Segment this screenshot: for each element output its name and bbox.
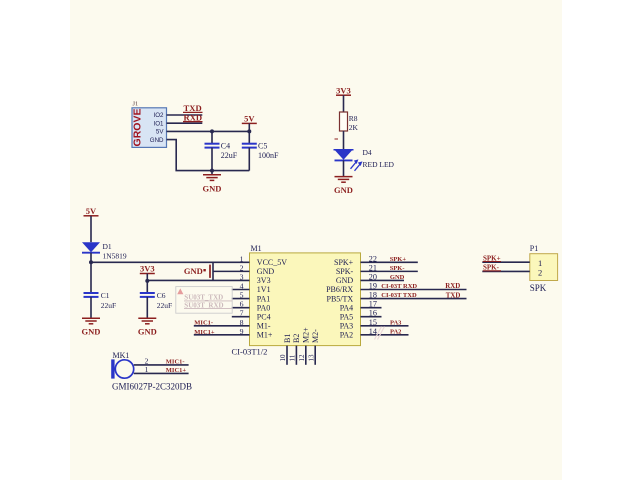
svg-text:GMI6027P-2C320DB: GMI6027P-2C320DB [112, 381, 192, 391]
svg-text:6: 6 [240, 300, 244, 309]
svg-text:IO2: IO2 [154, 112, 165, 119]
svg-text:GND: GND [390, 274, 405, 281]
svg-text:13: 13 [307, 354, 315, 362]
svg-text:14: 14 [369, 327, 377, 336]
svg-text:PA0: PA0 [257, 303, 271, 312]
svg-text:CI-03T RXD: CI-03T RXD [381, 283, 417, 290]
svg-text:2: 2 [240, 263, 244, 272]
svg-text:1V1: 1V1 [257, 285, 271, 294]
svg-text:MIC1-: MIC1- [166, 359, 185, 366]
svg-text:TXD: TXD [446, 292, 461, 299]
svg-text:GND: GND [82, 327, 101, 337]
svg-text:5V: 5V [86, 206, 97, 216]
svg-text:GND: GND [203, 183, 222, 193]
svg-text:22uF: 22uF [157, 301, 172, 310]
svg-text:D1: D1 [103, 242, 112, 251]
svg-text:M1-: M1- [257, 321, 271, 330]
svg-text:RXD: RXD [184, 112, 203, 122]
svg-text:RXD: RXD [445, 283, 460, 290]
svg-text:12: 12 [298, 354, 306, 362]
svg-text:GND: GND [334, 185, 353, 195]
svg-text:GND: GND [336, 276, 354, 285]
svg-text:7: 7 [240, 309, 244, 318]
svg-text:22uF: 22uF [221, 151, 238, 160]
svg-text:3V3: 3V3 [140, 264, 155, 274]
svg-text:20: 20 [369, 272, 377, 281]
svg-text:11: 11 [289, 354, 297, 361]
svg-text:1N5819: 1N5819 [103, 252, 127, 261]
svg-text:R8: R8 [349, 114, 358, 123]
svg-text:8: 8 [240, 318, 244, 327]
svg-text:3V3: 3V3 [257, 276, 271, 285]
svg-text:2: 2 [538, 267, 542, 277]
svg-text:3V3: 3V3 [336, 85, 351, 95]
svg-text:M2+: M2+ [302, 327, 311, 343]
svg-text:SPK-: SPK- [390, 265, 405, 272]
svg-text:5: 5 [240, 291, 244, 300]
svg-text:18: 18 [369, 291, 377, 300]
svg-text:C4: C4 [221, 142, 230, 151]
svg-text:17: 17 [369, 300, 377, 309]
svg-text:16: 16 [369, 309, 377, 318]
svg-text:4: 4 [240, 282, 244, 291]
svg-text:PA5: PA5 [340, 312, 354, 321]
svg-text:MK1: MK1 [113, 351, 130, 360]
svg-text:RED LED: RED LED [363, 160, 395, 169]
svg-text:VCC_5V: VCC_5V [257, 258, 287, 267]
svg-text:M2-: M2- [311, 329, 320, 343]
svg-text:B1: B1 [283, 334, 292, 343]
svg-text:MIC1+: MIC1+ [194, 329, 215, 336]
svg-text:GROVE: GROVE [132, 109, 144, 147]
svg-text:GND: GND [150, 137, 164, 144]
svg-text:PA3: PA3 [390, 319, 402, 326]
svg-text:PB6/RX: PB6/RX [326, 285, 353, 294]
svg-text:3: 3 [240, 272, 244, 281]
svg-text:C6: C6 [157, 291, 166, 300]
svg-text:9: 9 [240, 327, 244, 336]
svg-text:B2: B2 [292, 334, 301, 343]
svg-text:MIC1+: MIC1+ [166, 367, 187, 374]
svg-text:1: 1 [240, 254, 244, 263]
svg-text:PB5/TX: PB5/TX [327, 294, 354, 303]
svg-text:SPK-: SPK- [336, 267, 354, 276]
svg-text:SPK: SPK [530, 283, 547, 293]
svg-text:15: 15 [369, 318, 377, 327]
svg-text:1: 1 [145, 365, 149, 374]
svg-text:100nF: 100nF [258, 151, 279, 160]
svg-text:J1: J1 [133, 101, 139, 108]
svg-text:C1: C1 [101, 291, 110, 300]
svg-text:PA2: PA2 [340, 331, 354, 340]
svg-text:M1: M1 [251, 244, 262, 253]
svg-text:PA3: PA3 [340, 321, 354, 330]
svg-text:MIC1-: MIC1- [194, 320, 213, 327]
svg-text:5V: 5V [156, 129, 164, 136]
svg-text:PA2: PA2 [390, 328, 401, 335]
svg-text:10: 10 [279, 354, 287, 362]
svg-text:SPK+: SPK+ [334, 258, 354, 267]
svg-text:5V: 5V [244, 114, 255, 124]
svg-text:PA1: PA1 [257, 294, 271, 303]
svg-text:PA4: PA4 [340, 303, 354, 312]
svg-text:GND: GND [257, 267, 275, 276]
svg-text:C5: C5 [258, 142, 267, 151]
svg-text:CI-03T1/2: CI-03T1/2 [232, 347, 268, 357]
svg-text:CI-03T TXD: CI-03T TXD [381, 292, 417, 299]
svg-text:M1+: M1+ [257, 331, 273, 340]
svg-text:22uF: 22uF [101, 301, 116, 310]
svg-text:IO1: IO1 [154, 120, 165, 127]
svg-text:P1: P1 [530, 244, 538, 253]
svg-text:PC4: PC4 [257, 312, 271, 321]
svg-text:GND: GND [138, 327, 157, 337]
svg-text:GND: GND [184, 266, 203, 276]
svg-text:SPK+: SPK+ [390, 256, 407, 263]
svg-text:2K: 2K [349, 123, 359, 132]
svg-text:19: 19 [369, 282, 377, 291]
svg-text:21: 21 [369, 263, 377, 272]
svg-text:D4: D4 [363, 148, 372, 157]
svg-text:22: 22 [369, 254, 377, 263]
